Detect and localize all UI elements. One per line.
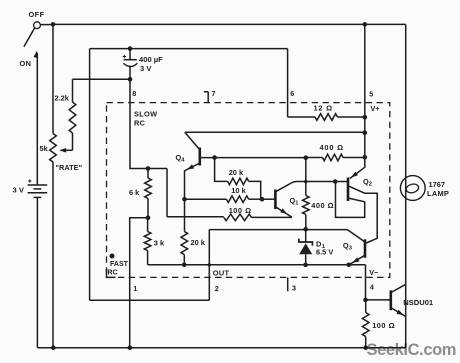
svg-text:3 V: 3 V bbox=[13, 185, 25, 194]
battery plus sign bbox=[28, 179, 31, 182]
svg-text:RC: RC bbox=[108, 269, 118, 276]
pin 2 label bbox=[215, 284, 219, 293]
wire top supply rail bbox=[53, 23, 406, 25]
svg-text:6: 6 bbox=[290, 89, 294, 98]
node 400 ohm crossing small bbox=[304, 180, 307, 183]
potentiometer R2 5k body bbox=[50, 134, 57, 163]
label NSDU01 bbox=[403, 298, 434, 307]
pin 3 stub bbox=[287, 277, 289, 291]
label 6 k bbox=[129, 188, 140, 197]
svg-text:3 k: 3 k bbox=[154, 238, 165, 247]
node pot bottom line at ground bbox=[51, 345, 56, 350]
svg-text:"RATE": "RATE" bbox=[56, 163, 83, 172]
label 100 ohm vertical bbox=[372, 321, 395, 330]
transistor Q5 base wire bbox=[366, 299, 391, 301]
svg-text:OFF: OFF bbox=[29, 10, 45, 19]
diode D1 zener 6.5V bbox=[299, 229, 313, 265]
pin 8 label bbox=[132, 89, 136, 98]
transistor Q3 bar bbox=[364, 239, 367, 257]
svg-text:400 µF: 400 µF bbox=[139, 55, 163, 64]
transistor Q4 collector bbox=[185, 132, 200, 150]
label 12 ohm bbox=[314, 104, 333, 113]
lamp LP1 1767 bbox=[400, 176, 425, 201]
label Q1 bbox=[290, 196, 300, 207]
label V+ bbox=[371, 104, 380, 113]
svg-text:8: 8 bbox=[132, 89, 136, 98]
node V+ emitter junction bbox=[363, 155, 368, 160]
svg-text:1: 1 bbox=[133, 284, 137, 293]
svg-text:V+: V+ bbox=[371, 104, 380, 113]
node 6k-3k junction bbox=[146, 215, 151, 220]
wire internal node to D1 top bbox=[209, 229, 347, 231]
label OUT bbox=[213, 269, 230, 278]
svg-text:ON: ON bbox=[20, 59, 32, 68]
label 100 ohm bbox=[229, 206, 252, 215]
transistor Q5 collector bbox=[391, 284, 406, 292]
node FAST RC dot bbox=[110, 254, 115, 259]
svg-text:2.2k: 2.2k bbox=[55, 94, 70, 103]
node Q2 base junction bbox=[333, 179, 338, 184]
label Q3 bbox=[343, 241, 353, 252]
svg-text:7: 7 bbox=[212, 89, 216, 98]
label 400 ohm horizontal bbox=[320, 143, 344, 152]
node cap top junction bbox=[128, 46, 133, 51]
svg-text:20 k: 20 k bbox=[191, 238, 206, 247]
resistor R8 20k bbox=[215, 158, 261, 200]
node 12 ohm right junction bbox=[363, 115, 368, 120]
transistor Q3 emitter bbox=[350, 255, 366, 264]
transistor Q2 emitter from V+ node bbox=[350, 157, 365, 178]
svg-text:FAST: FAST bbox=[110, 261, 129, 268]
node 100 ohm at ground bbox=[363, 345, 368, 350]
switch S1 contact circle bbox=[34, 22, 51, 29]
svg-text:2: 2 bbox=[215, 284, 219, 293]
wire Q4 emitter column bbox=[184, 171, 186, 232]
svg-text:3: 3 bbox=[292, 283, 296, 292]
svg-text:2: 2 bbox=[369, 182, 372, 188]
wire upper horizontal to pin6 bbox=[90, 48, 288, 50]
node D1 top junction bbox=[303, 227, 308, 232]
svg-text:100 Ω: 100 Ω bbox=[229, 206, 252, 215]
capacitor C1 400uF symbol bbox=[123, 49, 137, 80]
svg-text:400 Ω: 400 Ω bbox=[311, 201, 334, 210]
label 400 ohm vertical bbox=[311, 201, 334, 210]
node collector wire junction bbox=[363, 130, 368, 135]
pin 4 label bbox=[370, 282, 374, 291]
pin 7 label bbox=[212, 89, 216, 98]
node Q1 base junction bbox=[260, 197, 265, 202]
label 20 k vertical bbox=[191, 238, 206, 247]
wire pin4 drop bbox=[365, 265, 367, 300]
label 400 uF bbox=[139, 55, 163, 64]
capacitor plus mark bbox=[123, 55, 126, 58]
node 10k left junction bbox=[182, 197, 187, 202]
svg-text:RC: RC bbox=[134, 119, 146, 128]
watermark SeekIC.com bbox=[367, 341, 457, 359]
label ON bbox=[20, 59, 32, 68]
transistor Q2 collector 1 bbox=[348, 186, 377, 243]
svg-text:3 V: 3 V bbox=[140, 64, 152, 73]
node Q3 emitter junction bbox=[347, 263, 352, 268]
label 1767 bbox=[429, 180, 445, 189]
IC box bottom-left corner piece bbox=[107, 269, 116, 278]
wire RC feedback left vertical bbox=[89, 49, 91, 301]
node 400 ohm left junction bbox=[304, 155, 309, 160]
IC U1 dashed outline bbox=[107, 103, 390, 278]
label 3 V cap bbox=[140, 64, 152, 73]
wire pin2 vertical bbox=[208, 230, 210, 301]
resistor R6 100 ohm bbox=[167, 214, 292, 221]
node Q4 base 20k junction bbox=[212, 155, 217, 160]
resistor R7 10k bbox=[185, 196, 263, 203]
transistor Q1 emitter bbox=[275, 207, 292, 217]
transistor Q1 collector bbox=[275, 182, 293, 192]
wire Q1 collector to Q2 base bbox=[293, 181, 348, 184]
svg-text:OUT: OUT bbox=[213, 269, 230, 278]
resistor R5 20k vertical bbox=[181, 232, 188, 265]
svg-text:SLOW: SLOW bbox=[134, 110, 157, 119]
node 20k bottom junction bbox=[182, 263, 187, 268]
wire 6k top branch bbox=[166, 169, 168, 217]
label 6.5 V bbox=[316, 248, 333, 257]
transistor Q2 collector 2 tied to base bbox=[336, 182, 365, 218]
svg-text:100 Ω: 100 Ω bbox=[372, 321, 395, 330]
battery BT1 3V plates bbox=[28, 185, 48, 197]
transistor Q1 bar bbox=[274, 190, 277, 210]
label 5k bbox=[40, 144, 49, 153]
resistor R3 6k bbox=[145, 169, 152, 218]
transistor Q5 emitter bbox=[391, 308, 406, 317]
resistor R11 12 ohm bbox=[288, 114, 365, 121]
svg-text:6.5 V: 6.5 V bbox=[316, 248, 333, 257]
svg-text:12 Ω: 12 Ω bbox=[314, 104, 333, 113]
wire internal V- rail bbox=[148, 264, 366, 266]
transistor Q4 emitter bbox=[185, 163, 200, 171]
svg-text:LAMP: LAMP bbox=[427, 189, 449, 198]
switch S1 lever bbox=[24, 28, 35, 47]
transistor Q4 base wire bbox=[200, 157, 306, 159]
label 20 k horizontal bbox=[229, 168, 244, 177]
resistor R10 400 ohm vertical bbox=[303, 158, 310, 230]
node NSDU01 base junction bbox=[363, 298, 368, 303]
node junction top rail at V+ column bbox=[363, 22, 368, 27]
wire battery negative to ground rail bbox=[36, 197, 38, 347]
label FAST RC bbox=[108, 261, 129, 276]
label Q4 bbox=[176, 153, 186, 164]
wire left vertical upper bbox=[52, 24, 54, 133]
node 6k top junction bbox=[146, 166, 151, 171]
pin 1 label bbox=[133, 284, 137, 293]
pin 3 label bbox=[292, 283, 296, 292]
node D1 bottom junction bbox=[303, 263, 308, 268]
label RATE bbox=[56, 163, 83, 172]
wire right side drop to lamp bbox=[405, 24, 407, 347]
label 3 k bbox=[154, 238, 165, 247]
node junction top-left bbox=[51, 22, 56, 27]
label 2.2k bbox=[55, 94, 70, 103]
wire RC feedback bottom horizontal bbox=[90, 299, 210, 301]
transistor Q5 NSDU01 bar bbox=[389, 290, 392, 310]
transistor Q2 bar bbox=[347, 178, 350, 202]
wire left vertical lower bbox=[52, 162, 54, 348]
node pin1 line at ground bbox=[128, 345, 133, 350]
svg-text:5k: 5k bbox=[40, 144, 49, 153]
label 10 k bbox=[231, 186, 246, 195]
label OFF bbox=[29, 10, 45, 19]
label D1 bbox=[316, 239, 326, 250]
svg-text:1767: 1767 bbox=[429, 180, 445, 189]
transistor Q3 base bbox=[347, 230, 365, 242]
pin 5 label bbox=[369, 90, 373, 99]
svg-text:6 k: 6 k bbox=[129, 188, 140, 197]
svg-text:NSDU01: NSDU01 bbox=[403, 298, 434, 307]
pin 6 label bbox=[290, 89, 294, 98]
wire junction to pin1 bbox=[130, 218, 148, 348]
resistor R12 100 ohm vertical bbox=[362, 300, 369, 348]
node pin2 cross junction bbox=[208, 263, 211, 266]
label SLOW RC bbox=[134, 110, 157, 128]
svg-text:4: 4 bbox=[370, 282, 374, 291]
wire pin6 drop bbox=[287, 49, 289, 117]
wire cap node to 2.2k bbox=[73, 78, 131, 80]
wire ON-throw with arrow bbox=[34, 51, 39, 185]
label LAMP bbox=[427, 189, 449, 198]
svg-text:5: 5 bbox=[369, 90, 373, 99]
transistor Q4 bar bbox=[199, 148, 202, 166]
wire Q4 collector to V+ column bbox=[185, 131, 365, 133]
svg-text:SeekIC.com: SeekIC.com bbox=[367, 341, 457, 359]
wire V+ column bbox=[364, 24, 366, 157]
label V- bbox=[369, 268, 378, 277]
svg-text:10 k: 10 k bbox=[231, 186, 246, 195]
wire bottom ground rail bbox=[37, 347, 406, 349]
resistor R4 3k bbox=[144, 218, 151, 265]
transistor Q1 base wire bbox=[262, 198, 275, 200]
pin 7 stub bbox=[204, 92, 208, 103]
svg-text:400 Ω: 400 Ω bbox=[320, 143, 344, 152]
wire pin8 internal bbox=[130, 79, 167, 168]
resistor R1 2.2k bbox=[69, 79, 76, 150]
potentiometer wiper arrow bbox=[59, 148, 72, 153]
svg-text:V−: V− bbox=[369, 268, 378, 277]
resistor R9 400 ohm horizontal bbox=[306, 154, 365, 161]
node cap bottom junction bbox=[128, 77, 133, 82]
label Q2 bbox=[363, 177, 372, 188]
svg-text:20 k: 20 k bbox=[229, 168, 244, 177]
label 3 V battery bbox=[13, 185, 25, 194]
